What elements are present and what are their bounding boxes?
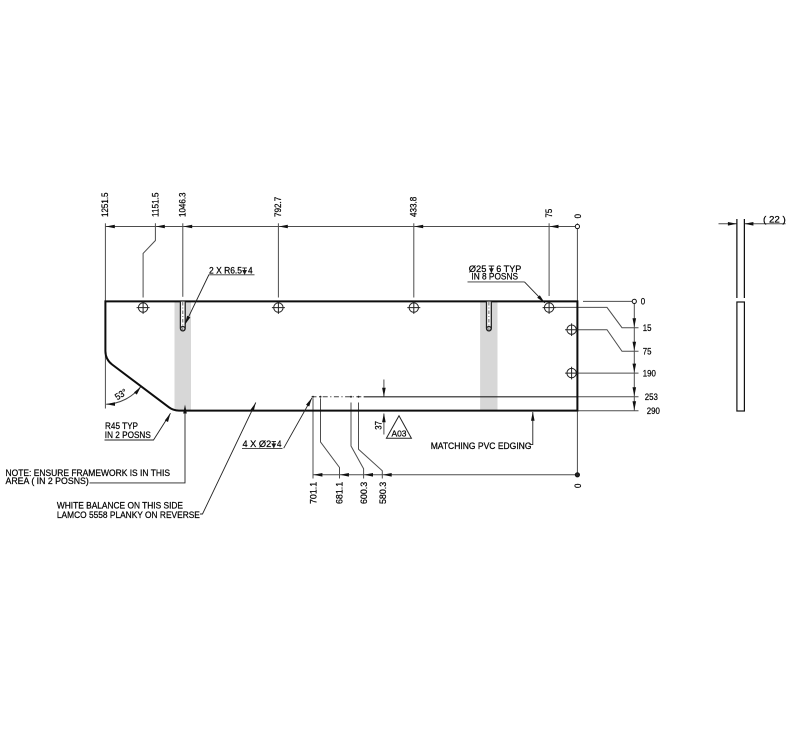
svg-text:1046.3: 1046.3 <box>178 193 188 218</box>
right dim leader 15 <box>555 307 639 327</box>
arrow top dim 1151.5 <box>156 225 165 229</box>
framework grey area 1 <box>175 302 192 411</box>
leader 2xR6.5 <box>185 275 209 325</box>
extension line 792.7 <box>277 223 279 297</box>
extension line 1251.5 <box>104 223 106 301</box>
svg-text:IN 8 POSNS: IN 8 POSNS <box>471 272 518 282</box>
slot 1 (2 X R6.5) <box>180 302 185 333</box>
arrow bottom dim 600.3 <box>364 473 373 477</box>
arrow right dim 15 <box>633 318 637 327</box>
arrow angle arc top <box>134 387 141 395</box>
arrow 37 dim up <box>382 413 386 422</box>
svg-text:2 X R6.5: 2 X R6.5 <box>209 266 242 276</box>
svg-text:600.3: 600.3 <box>359 482 369 504</box>
leader R45 <box>105 413 171 440</box>
hole dot 701.1 <box>312 396 314 398</box>
hole dot 580.3 <box>358 396 360 398</box>
svg-text:0: 0 <box>641 297 645 307</box>
hole dot 681.1 <box>320 396 322 398</box>
origin circle right dim <box>632 299 636 303</box>
right dim leader 253 <box>577 396 638 398</box>
svg-text:37: 37 <box>374 421 384 430</box>
hole (792.7, 15) <box>272 301 285 314</box>
origin circle bottom dim <box>575 473 579 477</box>
extension line 0 top <box>576 223 578 301</box>
svg-text:MATCHING PVC EDGING: MATCHING PVC EDGING <box>431 441 532 451</box>
hole (75, 15) <box>543 301 556 314</box>
bottom extension 681.1 (bent) <box>321 398 340 478</box>
svg-text:701.1: 701.1 <box>308 482 318 504</box>
leader o25 <box>525 282 545 303</box>
svg-text:0: 0 <box>573 484 583 488</box>
arrow leader 4xO2 <box>306 398 312 407</box>
leader NOTE framework <box>90 413 186 483</box>
extension line 433.8 <box>413 223 415 297</box>
bottom extension 580.3 (bent) <box>359 403 383 479</box>
svg-text:0: 0 <box>573 214 583 218</box>
step line at 253 level (solid) <box>364 396 578 398</box>
arrow angle arc bottom <box>106 402 115 406</box>
svg-text:75: 75 <box>643 347 652 357</box>
leader white balance <box>200 403 256 515</box>
underline o25 <box>468 281 525 283</box>
bottom extension 600.3 (bent) <box>351 403 364 479</box>
side view upper plank <box>737 219 745 411</box>
svg-text:4: 4 <box>248 266 253 276</box>
svg-text:75: 75 <box>544 209 554 218</box>
arrow top dim 433.8 <box>414 225 423 229</box>
side view lower plank <box>737 302 745 411</box>
37 dim upper line <box>383 380 385 397</box>
hole dot 600.3 <box>350 396 352 398</box>
arrow 37 dim down <box>382 388 386 397</box>
bottom dimension line <box>313 474 577 476</box>
slot 2 (2 X R6.5) <box>487 302 492 333</box>
svg-text:253: 253 <box>645 392 658 402</box>
hole right column (75) <box>565 323 578 336</box>
depth symbol for o25 <box>489 266 495 272</box>
right dim: 0 level line <box>583 300 632 302</box>
svg-text:15: 15 <box>643 323 652 333</box>
svg-text:290: 290 <box>647 406 660 416</box>
svg-text:WHITE BALANCE ON THIS SIDE: WHITE BALANCE ON THIS SIDE <box>57 500 183 510</box>
depth symbol for 4xO2 <box>272 441 276 447</box>
arrow right dim 253 <box>633 387 637 396</box>
arrow leader R45 <box>165 413 171 422</box>
extension line 1151.5 (bent) <box>143 223 155 297</box>
angle arc 53 <box>106 387 141 405</box>
arrow leader 2xR6.5 <box>185 316 191 325</box>
hole (433.8, 15) <box>407 301 420 314</box>
right dim leader 190 <box>577 372 639 374</box>
svg-text:4: 4 <box>277 439 282 449</box>
svg-text:4 X Ø2: 4 X Ø2 <box>243 439 272 449</box>
bottom extension 701.1 <box>312 398 314 478</box>
arrow side dim right-pointing <box>728 222 737 226</box>
svg-text:1251.5: 1251.5 <box>100 193 110 218</box>
underline 4xO2 <box>242 447 283 449</box>
centre line of 4 holes (dash-dot) <box>312 396 365 398</box>
37 dim lower line <box>383 414 385 435</box>
framework grey area 2 <box>480 302 497 411</box>
leader pvc edging <box>530 412 533 445</box>
right dim leader 290 <box>577 410 638 412</box>
side view extension right <box>743 219 745 298</box>
svg-text:53°: 53° <box>113 387 129 402</box>
A03 triangle <box>386 416 411 439</box>
arrow top dim 792.7 <box>279 225 288 229</box>
svg-text:681.1: 681.1 <box>335 482 345 504</box>
svg-text:( 22 ): ( 22 ) <box>763 214 786 224</box>
side dim line right <box>744 223 785 225</box>
side dim line left <box>719 223 737 225</box>
svg-text:LAMCO 5558 PLANKY ON REVERSE: LAMCO 5558 PLANKY ON REVERSE <box>57 510 200 520</box>
top dimension line <box>105 226 577 228</box>
right dim leader 75 <box>577 330 639 352</box>
svg-text:IN 2 POSNS: IN 2 POSNS <box>105 430 151 440</box>
extension line 75 <box>548 223 550 296</box>
arrow leader NOTE <box>183 405 187 414</box>
svg-text:A03: A03 <box>392 428 407 438</box>
depth symbol for 2xR6.5 <box>242 268 247 274</box>
arrow bottom dim 681.1 <box>340 473 349 477</box>
angle extension line <box>104 355 106 409</box>
svg-text:AREA ( IN 2 POSNS): AREA ( IN 2 POSNS) <box>6 476 89 486</box>
arrow leader o25 <box>537 295 545 303</box>
arrow side dim left-pointing <box>744 222 753 226</box>
hole (1151.5, 15) <box>137 301 150 314</box>
svg-text:433.8: 433.8 <box>409 197 419 217</box>
underline 2xR6.5 <box>209 274 255 276</box>
arrow right dim 290 <box>633 401 637 410</box>
bottom right edge extension <box>576 412 578 475</box>
arrow top dim 1251.5 <box>106 225 115 229</box>
panel outline <box>105 301 577 410</box>
right dimension line <box>633 301 635 410</box>
arrow leader pvc <box>531 412 535 421</box>
origin circle top dim <box>575 224 579 228</box>
svg-text:190: 190 <box>643 368 656 378</box>
extension line 1046.3 <box>182 223 184 296</box>
hole right column (190) <box>565 367 578 380</box>
arrow leader white balance <box>250 403 255 412</box>
side view extension left <box>736 219 738 298</box>
arrow right dim 190 <box>633 364 637 373</box>
svg-text:1151.5: 1151.5 <box>150 193 160 218</box>
arrow right dim 75 <box>633 342 637 351</box>
arrow bottom dim 580.3 <box>383 473 392 477</box>
arrow top dim 75 <box>550 225 559 229</box>
svg-text:792.7: 792.7 <box>273 197 283 217</box>
svg-text:580.3: 580.3 <box>378 482 388 504</box>
arrow top dim 1046.3 <box>183 225 192 229</box>
leader 4xO2 <box>284 398 312 448</box>
arrow bottom dim 701.1 <box>313 473 322 477</box>
